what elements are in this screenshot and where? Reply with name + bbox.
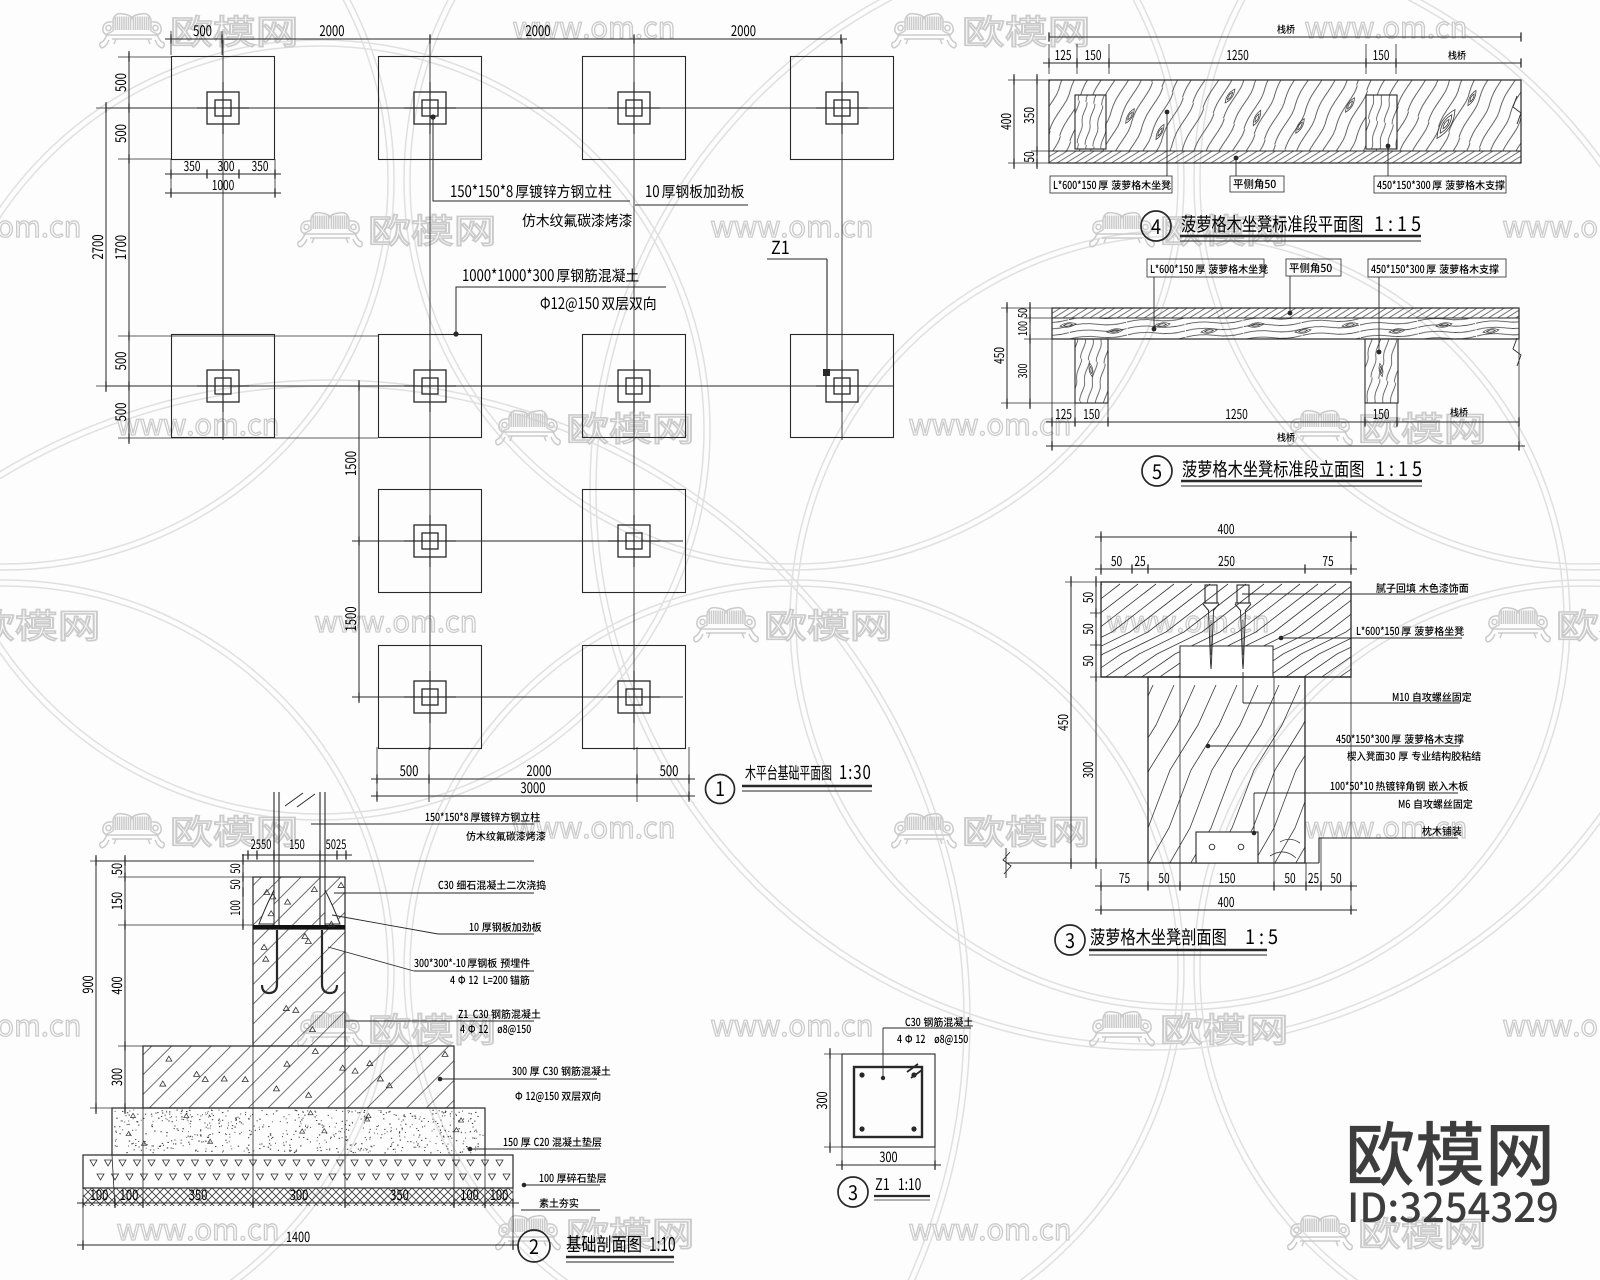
break mark right: [1513, 338, 1521, 366]
label L*600*150 seat board: [1152, 327, 1157, 332]
label 150*150*8 column: [311, 823, 534, 825]
footing squares: [172, 57, 275, 160]
M6 fixing plate: [1196, 832, 1258, 863]
left dimension 900: [95, 855, 97, 1114]
stirrup hook: [907, 1064, 918, 1072]
base plate 300*300*10 (black): [253, 925, 345, 930]
dimension bottom 400: [1095, 909, 1357, 911]
foundation plan: detail 1: [92, 25, 894, 803]
dimension bottom 75/50/150/50/25/50: [1100, 869, 1102, 914]
gravel layer: [83, 1155, 513, 1188]
label 100*50*10 angle steel: [1252, 831, 1257, 836]
title: detail 3 bench section: [1055, 925, 1085, 955]
grout top line: [253, 876, 345, 878]
title: detail 4: [1141, 211, 1171, 241]
title: Z1 1:10: [838, 1177, 868, 1207]
left dimension chain 500/500/1700/500/500: [118, 56, 171, 58]
column symbols: [207, 92, 239, 124]
title: detail 1 plan 1:30: [706, 775, 735, 804]
left dimension 2700: [96, 107, 129, 109]
bench support blocks (plan): [1075, 95, 1106, 149]
dimension bottom 125/150/1250/150: [1051, 339, 1053, 450]
break mark right: [1513, 96, 1521, 124]
stirrup: [854, 1067, 922, 1137]
footing concrete with hatch: [143, 1046, 454, 1108]
left dimension chain 50/150/400/300: [90, 860, 248, 862]
grid centerlines: [106, 107, 894, 109]
Z1 concrete outline: [842, 1054, 935, 1147]
label 450*150*300 support: [1377, 350, 1382, 355]
dimension top overall: [1049, 36, 1521, 38]
mini dimension 25/50/150/50/25: [242, 854, 352, 856]
dimension top 400: [1100, 531, 1102, 575]
dimension left 450 / 50/100/300: [1001, 307, 1052, 309]
label 10mm stiffener plate: [635, 204, 748, 206]
label 450*150*300 support: [1206, 744, 1211, 749]
bench legs (elevation): [1075, 339, 1108, 403]
ground line and sleeper paving step: [1006, 862, 1319, 864]
label chamfer 50: [1234, 156, 1239, 161]
seat board (elevation): [1052, 308, 1519, 318]
bottom dimension 500/2000/500: [376, 747, 378, 802]
dimension 350/300/350 under footing: [170, 159, 172, 196]
concrete triangles: [160, 882, 448, 1097]
site logo 欧模网: [1350, 1121, 1550, 1187]
label 450*150*300 support: [1386, 144, 1391, 149]
bench standard segment plan: detail 4: [1001, 25, 1521, 241]
reference line: [96, 860, 534, 862]
bottom dimension chain 100/100/350/300/350/100/100: [82, 1188, 84, 1250]
title: detail 2 foundation section: [518, 1230, 550, 1262]
label C30 fine stone concrete: [334, 892, 534, 894]
anchor J-bolts: [262, 930, 277, 993]
rammed earth crosshatch: [83, 1188, 513, 1206]
label 300 thick C30 footing: [438, 1077, 443, 1082]
dimension bottom overall: [1046, 445, 1525, 447]
bench seat section: detail 3: [940, 524, 1570, 955]
rebar dots: [859, 1072, 864, 1077]
dimension left 400 / 350/50: [1008, 79, 1049, 81]
label 300*300*10 embedded plate: [328, 947, 414, 971]
label sleeper paving: [1422, 826, 1461, 836]
label Z1 column mark: [772, 241, 789, 254]
M10 screws: [1205, 585, 1217, 603]
bench seat board (plan) with wood grain: [1049, 80, 1521, 151]
dimension left 300: [824, 1053, 842, 1055]
Z1 column section detail: [817, 1017, 973, 1207]
label 1000*1000*300 footing concrete: [453, 331, 458, 336]
dimension left 450 and 50/50/50/300: [1065, 581, 1101, 583]
column break mark: [283, 795, 317, 807]
label 150*150*8 steel column: [430, 114, 435, 119]
label chamfer 50: [1288, 311, 1293, 316]
mini dimension 50/50/100: [242, 854, 244, 930]
bottom dimension 1400: [77, 1244, 519, 1246]
title: detail 5: [1142, 456, 1172, 486]
label L*600*150 seat board: [1165, 110, 1170, 115]
label C30 concrete: [883, 1027, 971, 1029]
bottom dimension 3000: [371, 795, 695, 797]
label Z1 C30 concrete: [345, 1020, 534, 1022]
steel column (square tube walls): [273, 792, 275, 925]
foundation section: detail 2: [77, 792, 675, 1262]
label putty fill / wood paint: [1242, 593, 1458, 595]
label rammed earth: [521, 1209, 600, 1211]
top dimension 500/2000/2000/2000: [170, 31, 172, 55]
site ID: [1351, 1192, 1557, 1223]
stiffener plates: [259, 890, 274, 924]
C20 bedding layer with stipple: [112, 1108, 485, 1155]
label 10mm stiffener: [332, 915, 438, 934]
label M10 screw: [1242, 672, 1244, 703]
label L*600*150 seat: [1279, 636, 1284, 641]
bench standard segment elevation: detail 5: [994, 259, 1525, 486]
dimension top 125/150/1250/150: [1048, 44, 1050, 74]
dimension 1500/1500: [358, 380, 360, 703]
support notch (white): [1180, 646, 1273, 677]
label gravel bedding: [522, 1183, 527, 1188]
pier Z1 concrete with hatch: [253, 877, 345, 1046]
dimension top 50/25/250/75: [1095, 568, 1357, 570]
label C20 bedding: [468, 1147, 473, 1152]
dimension bottom 300: [841, 1147, 843, 1170]
dimension 1000: [165, 192, 281, 194]
